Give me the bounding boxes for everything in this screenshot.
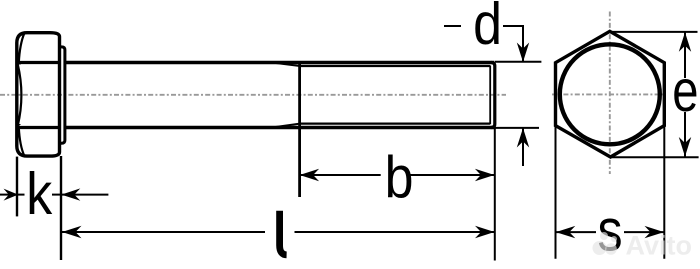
dimension l: left arrow (pointing left)	[62, 226, 82, 238]
dimension d: top extension line	[495, 61, 541, 63]
dimension k: left extension line	[16, 157, 18, 217]
shank bottom line	[65, 126, 495, 129]
head facet line upper	[17, 61, 60, 64]
dimension s: line right segment	[624, 231, 664, 233]
washer face band	[60, 47, 65, 143]
dimension l: line left segment	[62, 231, 265, 233]
dimension d: leader from label to dim line corner	[503, 26, 523, 62]
dimension d: top arrow (down)	[517, 43, 529, 63]
dimension k: left arrow tail	[0, 194, 16, 196]
hex head front view: centerline vertical	[609, 12, 611, 175]
dimension s: right arrow (pointing right)	[645, 226, 665, 238]
head chamfer arc middle facet	[18, 65, 22, 126]
dimension e: line bottom segment	[684, 112, 686, 157]
bolt end face	[491, 63, 495, 128]
dimension b: right arrow (pointing right)	[475, 169, 495, 181]
dimension l: right arrow (pointing right)	[475, 226, 495, 238]
dimension s: line left segment	[556, 231, 597, 233]
dimension k: right extension line (also l left boundary)	[60, 156, 62, 260]
dimension k: line stub left of label	[18, 194, 25, 196]
thread minor diameter top line	[300, 65, 491, 67]
thread minor diameter bottom line	[300, 122, 491, 124]
dimension k: right arrow tail	[61, 194, 108, 196]
dimension e: bottom arrow (pointing down)	[679, 137, 691, 157]
thread runout slant top	[272, 63, 300, 67]
hexagon outline	[556, 31, 665, 157]
dimension d: bottom arrow (up) tail	[522, 128, 524, 166]
shank top line	[65, 61, 495, 64]
end face extension line down (l/b right boundary)	[494, 128, 496, 261]
watermark Avito logo bubbles	[593, 232, 618, 255]
svg-text:d: d	[473, 0, 502, 57]
dimension e: top arrow (pointing up)	[679, 32, 691, 52]
head chamfer arc bottom facet	[19, 128, 25, 156]
dimension b: line left segment	[300, 174, 381, 176]
dimension s: right extension line	[663, 126, 665, 259]
dimension k: line stub right of label	[52, 194, 61, 196]
label k	[26, 161, 52, 227]
bolt head (side view outline)	[17, 33, 60, 156]
svg-text:b: b	[385, 144, 414, 210]
dimension b: left arrow (pointing left)	[300, 169, 320, 181]
svg-text:k: k	[26, 161, 52, 227]
dimension e: top extension line	[610, 31, 698, 33]
dimension k: left arrow (pointing right)	[4, 189, 19, 201]
dimension k: right arrow (pointing left)	[61, 188, 80, 200]
wedge fill top junction	[16, 55, 22, 65]
label e	[672, 59, 698, 124]
dimension d: bottom arrow (up)	[517, 128, 529, 148]
thread start vertical line + b extension	[298, 61, 301, 197]
dimension e: bottom extension line	[611, 156, 699, 158]
label d	[473, 0, 502, 57]
head facet line lower	[17, 126, 60, 129]
head chamfer arc top facet	[19, 33, 25, 62]
dimension d: bottom extension line	[495, 127, 539, 129]
dimension s: left arrow (pointing left)	[556, 226, 576, 238]
end chamfer line	[489, 66, 491, 125]
dimension s: left extension line (below hexagon flat)	[555, 126, 557, 259]
wedge fill bottom junction	[16, 124, 22, 134]
svg-text:e: e	[672, 59, 698, 124]
dimension l: line right segment	[295, 231, 495, 233]
dimension d: leader dash left of label	[444, 25, 461, 27]
dimension e: line top segment	[684, 32, 686, 78]
label b	[385, 144, 414, 210]
thread runout slant bottom	[272, 124, 300, 128]
centerline side view	[0, 94, 506, 96]
label l	[280, 211, 287, 255]
hex head front view: centerline horizontal	[552, 93, 664, 95]
dimension b: line right segment	[409, 174, 494, 176]
svg-text:Avito: Avito	[626, 231, 693, 261]
label s	[597, 197, 622, 264]
inscribed chamfer circle	[560, 44, 660, 144]
